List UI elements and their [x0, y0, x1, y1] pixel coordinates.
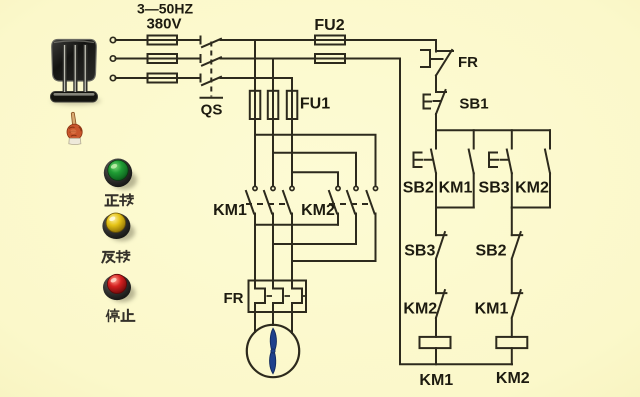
- svg-text:KM1: KM1: [475, 300, 509, 317]
- svg-text:SB2: SB2: [403, 180, 434, 197]
- svg-text:KM2: KM2: [301, 202, 335, 219]
- svg-text:380V: 380V: [146, 16, 181, 33]
- svg-text:FU2: FU2: [314, 17, 344, 34]
- svg-text:3—50HZ: 3—50HZ: [137, 1, 193, 17]
- svg-text:FR: FR: [224, 290, 244, 307]
- svg-text:SB3: SB3: [404, 242, 435, 259]
- svg-text:KM2: KM2: [515, 180, 549, 197]
- svg-text:QS: QS: [201, 102, 223, 119]
- svg-text:KM2: KM2: [496, 370, 530, 387]
- svg-text:SB3: SB3: [479, 180, 510, 197]
- svg-text:SB1: SB1: [459, 96, 488, 113]
- svg-text:KM1: KM1: [439, 180, 473, 197]
- svg-text:SB2: SB2: [475, 242, 506, 259]
- svg-text:KM1: KM1: [213, 202, 247, 219]
- svg-text:KM2: KM2: [403, 300, 437, 317]
- svg-text:FU1: FU1: [300, 96, 330, 113]
- svg-text:FR: FR: [458, 54, 478, 71]
- svg-text:KM1: KM1: [419, 372, 453, 389]
